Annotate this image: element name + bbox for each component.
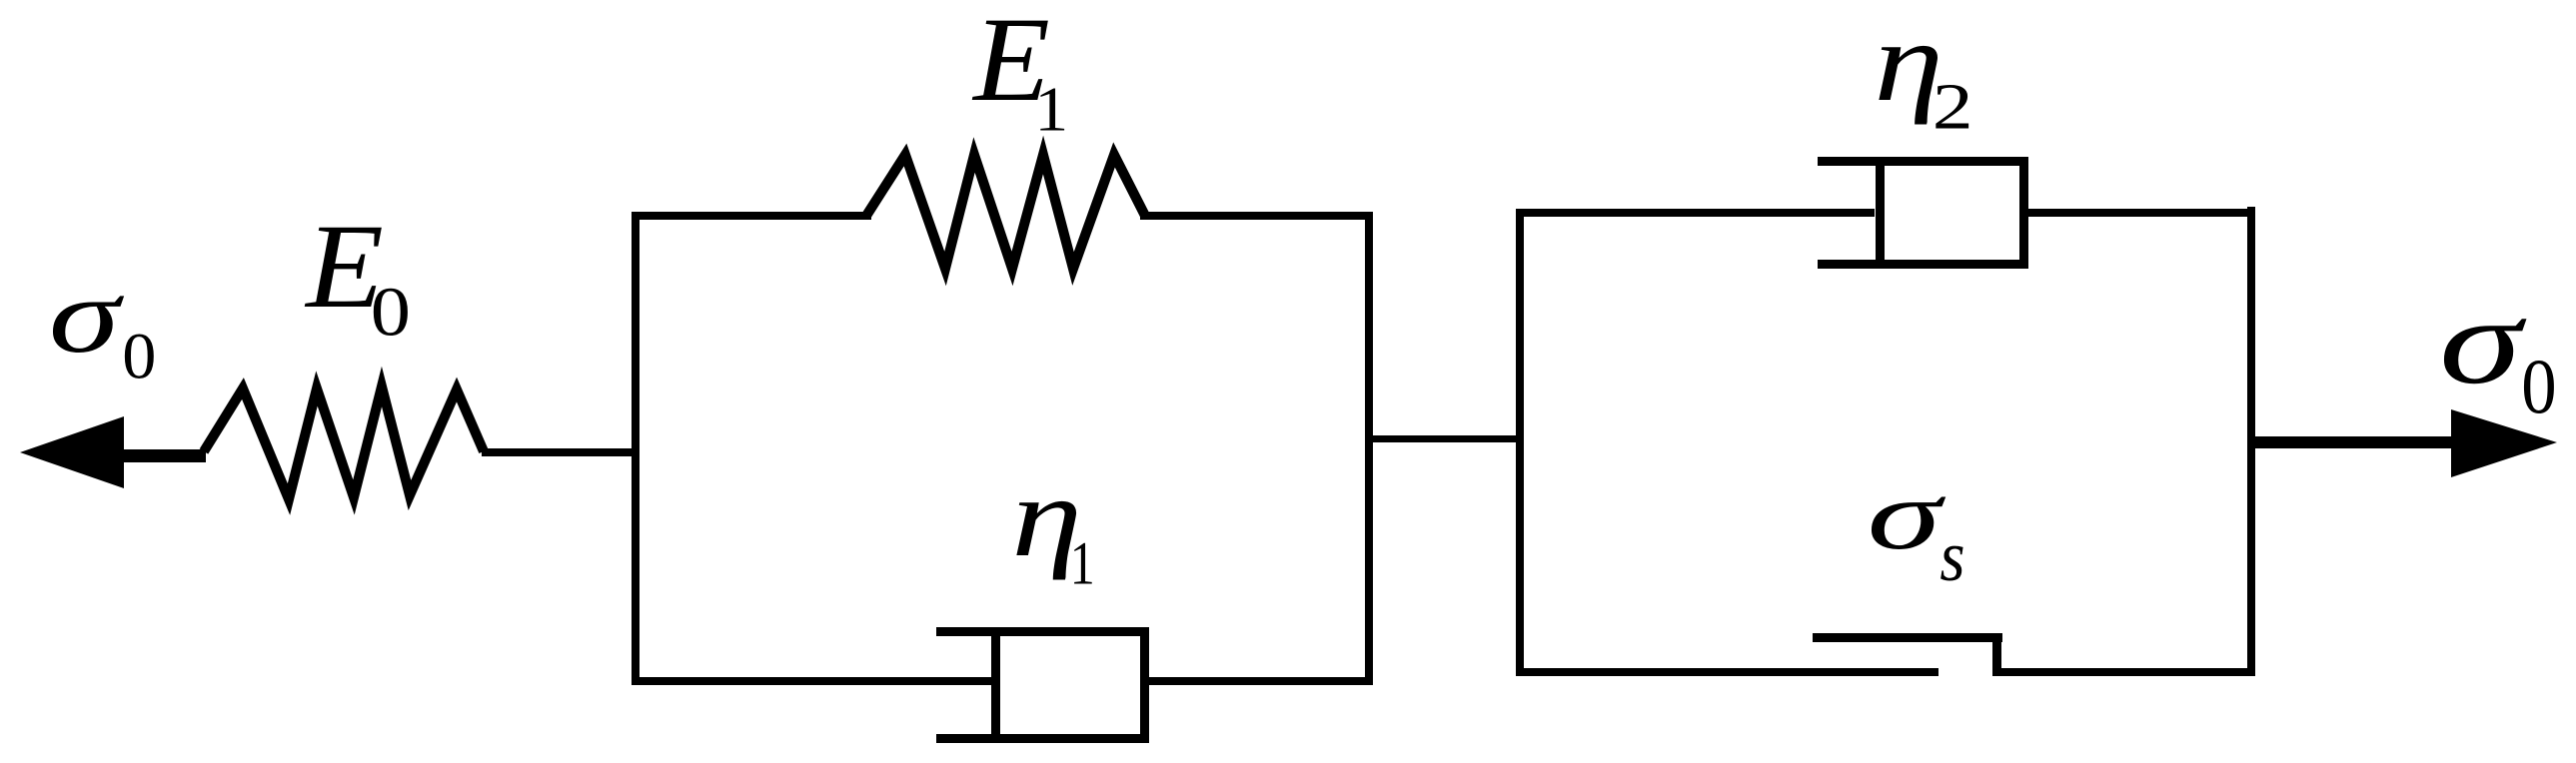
spring E1 — [866, 155, 1145, 269]
left arrow (applied stress) — [20, 416, 206, 488]
label E1 — [971, 0, 1068, 145]
label eta1 — [1011, 454, 1094, 598]
output wire to right arrow — [2251, 436, 2455, 448]
label sigma_0 (right stress) — [2439, 273, 2557, 430]
box2 bottom edge left segment — [1516, 668, 1938, 676]
box2 top edge left segment — [1516, 209, 1875, 217]
box1 top edge left segment — [632, 212, 871, 220]
wire spring E0 to box1 — [482, 448, 640, 456]
svg-text:0: 0 — [2521, 344, 2556, 430]
label sigma_s — [1868, 459, 1965, 596]
svg-text:1: 1 — [1034, 76, 1068, 145]
box1 left edge — [632, 212, 640, 685]
svg-text:σ: σ — [2439, 273, 2526, 409]
svg-text:σ: σ — [1868, 459, 1946, 570]
box1 bottom edge right segment — [1145, 677, 1373, 685]
svg-text:2: 2 — [1932, 71, 1973, 144]
label E0 — [304, 200, 411, 351]
box2 left edge — [1516, 209, 1524, 676]
spring E0 — [204, 386, 484, 499]
box1 bottom edge left segment — [632, 677, 995, 685]
svg-text:s: s — [1939, 516, 1964, 596]
friction slider upper plate — [1813, 633, 2002, 676]
box2 bottom edge right segment — [1996, 668, 2255, 676]
box2 top edge right segment — [2023, 209, 2255, 217]
right arrow (applied stress) — [2451, 409, 2557, 477]
dashpot eta1 — [936, 627, 1149, 743]
label sigma_0 (left stress) — [49, 257, 157, 392]
svg-text:0: 0 — [371, 274, 411, 351]
svg-text:0: 0 — [122, 322, 156, 392]
dashpot eta2 — [1818, 157, 2028, 269]
box1 top edge right segment — [1140, 212, 1373, 220]
box2 right edge — [2247, 207, 2255, 676]
svg-text:1: 1 — [1070, 530, 1095, 598]
label eta2 — [1874, 0, 1972, 144]
svg-text:σ: σ — [49, 257, 125, 376]
wire box1 to box2 — [1369, 435, 1520, 442]
box1 right edge — [1365, 212, 1373, 685]
